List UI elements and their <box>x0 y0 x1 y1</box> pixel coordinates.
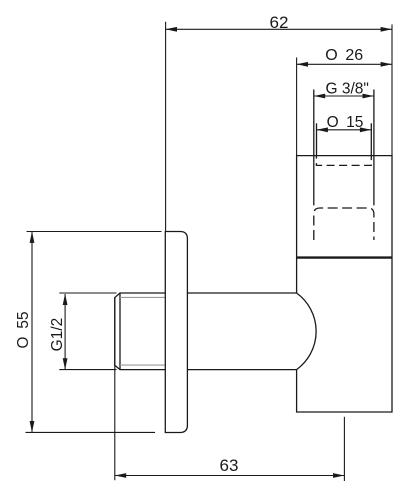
internal thread solid line left (G3/8 bore) <box>313 90 315 206</box>
dimension 63 extension line right <box>343 417 345 481</box>
arrow O15 left <box>317 127 328 132</box>
dimension G3/8 line <box>314 95 374 97</box>
horizontal pipe bottom line <box>187 369 296 371</box>
dimension 62 extension line right <box>391 24 393 155</box>
nipple chamfer inner vertical <box>119 293 121 370</box>
arrow G1/2 top <box>63 294 68 305</box>
svg-text:G1/2: G1/2 <box>49 318 66 352</box>
horizontal pipe top line <box>187 292 296 294</box>
dimension 63 extension line left <box>114 298 116 481</box>
arrow O15 right <box>360 127 371 132</box>
dimension O55 extension line bottom <box>26 431 156 433</box>
O15 extension line right <box>370 123 372 155</box>
dimension O15 line <box>317 129 372 131</box>
arrow 63 right <box>333 473 344 478</box>
arrow 62 right <box>381 27 392 32</box>
O15 extension line left <box>316 123 318 155</box>
arrow G3/8 right <box>363 94 374 99</box>
dimension G1/2 extension line bottom <box>59 369 116 371</box>
wall flange <box>165 232 187 433</box>
hidden bore dashed outline <box>316 156 371 166</box>
arrow 63 left <box>115 473 126 478</box>
arrow O55 top <box>30 232 35 243</box>
hidden cavity dashed rounded rect <box>314 208 374 240</box>
valve body outline <box>297 156 392 412</box>
dimension O55 extension line top <box>27 231 162 233</box>
body separator thick line <box>297 256 392 258</box>
pipe boss intersection curve <box>297 293 317 370</box>
thread root line top <box>120 296 165 298</box>
internal thread solid line right (G3/8 bore) <box>373 90 375 206</box>
dimension 62 extension line left <box>165 22 167 232</box>
dimension G1/2 extension line top <box>59 292 116 294</box>
threaded nipple outline <box>115 293 166 370</box>
arrow O26 left <box>297 62 308 67</box>
dimension G1/2 line <box>64 294 66 370</box>
thread root line bottom <box>120 364 165 366</box>
svg-text:62: 62 <box>270 13 289 32</box>
svg-text:63: 63 <box>220 456 239 475</box>
arrow O55 bottom <box>30 421 35 432</box>
dimension O55 line <box>31 232 33 433</box>
arrow G3/8 left <box>314 94 325 99</box>
arrow 62 left <box>166 27 177 32</box>
svg-text:G 3/8": G 3/8" <box>325 80 368 97</box>
dimension 63 line <box>115 475 345 477</box>
dimension O26 line <box>297 63 392 65</box>
dimension O26 extension line left <box>296 58 298 156</box>
arrow O26 right <box>381 62 392 67</box>
dimension 62 line <box>166 28 392 30</box>
arrow G1/2 bottom <box>63 358 68 369</box>
